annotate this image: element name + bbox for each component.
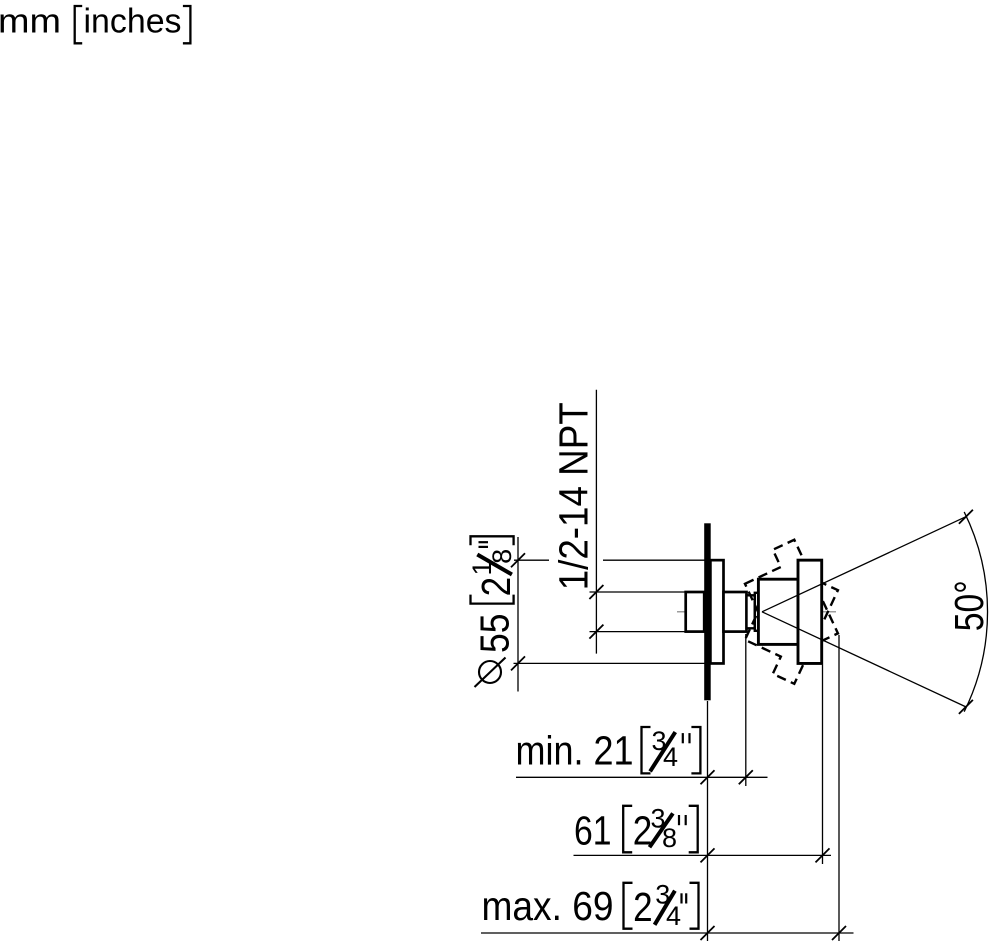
dimension max.69: fraction slash bbox=[655, 891, 675, 925]
svg-text:4: 4 bbox=[663, 742, 678, 772]
svg-text:50°: 50° bbox=[946, 580, 992, 631]
dimension 61: dimension line bbox=[574, 854, 832, 856]
dimension 50 degrees: tick upper bbox=[959, 510, 973, 524]
svg-text:8: 8 bbox=[662, 823, 677, 853]
dimension 61: tick right bbox=[816, 848, 830, 862]
dimension Ø55: fraction slash bbox=[477, 555, 512, 575]
svg-text:min. 21: min. 21 bbox=[516, 728, 634, 774]
svg-text:2: 2 bbox=[633, 884, 653, 930]
dimension 50 degrees: tick lower bbox=[959, 700, 973, 714]
dimension 50 degrees: lower ray bbox=[762, 612, 966, 707]
svg-text:max. 69: max. 69 bbox=[482, 883, 614, 929]
dimension 61: bracket close bbox=[689, 806, 698, 853]
dimension max.69: tick right bbox=[832, 926, 846, 940]
dimension Ø55: bracket close bbox=[471, 536, 514, 545]
dimension 61: inch marks bbox=[678, 815, 680, 825]
dimension Ø55: inch marks bbox=[479, 541, 489, 543]
centerline (valve axis) bbox=[677, 611, 836, 613]
dimension max.69: dimension line bbox=[481, 932, 854, 934]
dimension 1/2-14 NPT: tick bottom bbox=[589, 625, 603, 639]
dimension Ø55: tick bottom bbox=[511, 656, 525, 670]
wall (finished surface, thick bar) bbox=[704, 523, 711, 700]
dimension Ø55: extension line top bbox=[514, 559, 549, 561]
dimension min.21: tick right bbox=[739, 770, 753, 784]
dimension max.69: inch marks bbox=[680, 893, 682, 903]
dimension min.21: bracket close bbox=[691, 727, 700, 773]
dimension 61: bracket open bbox=[623, 806, 632, 853]
dimension min.21: bracket open bbox=[642, 727, 651, 773]
svg-text:mm: mm bbox=[0, 3, 61, 41]
dimension 61: fraction slash bbox=[650, 813, 673, 847]
svg-text:55: 55 bbox=[472, 614, 518, 654]
dimension 61: tick left bbox=[701, 848, 715, 862]
svg-text:8: 8 bbox=[487, 549, 517, 564]
svg-text:2: 2 bbox=[473, 577, 519, 597]
dimension min.21: dimension line bbox=[516, 776, 768, 778]
svg-text:inches: inches bbox=[84, 3, 182, 41]
dimension 1/2-14 NPT: extension line top bbox=[590, 591, 686, 593]
handle cap disc bbox=[798, 560, 822, 663]
units label "mm [inches]" bbox=[0, 3, 190, 44]
handle position rotated up (dashed) bbox=[737, 540, 838, 660]
dimension 1/2-14 NPT: extension line bottom bbox=[590, 631, 686, 633]
dimension 1/2-14 NPT: dimension line bbox=[595, 390, 597, 654]
sleeve bbox=[724, 592, 747, 632]
dimension min.21: fraction slash bbox=[650, 732, 675, 771]
extension line cap front bbox=[822, 665, 824, 864]
threaded nipple behind wall bbox=[686, 592, 705, 632]
dimension max.69: bracket open bbox=[624, 883, 633, 929]
dimension Ø55: extension line bottom bbox=[514, 662, 711, 664]
dimension 50 degrees: arc bbox=[964, 512, 987, 712]
dimension max.69: bracket close bbox=[690, 883, 699, 929]
dimension min.21: tick left bbox=[701, 770, 715, 784]
extension line handle max reach bbox=[838, 635, 840, 941]
stem neck bbox=[747, 595, 755, 628]
dimension min.21: inch marks bbox=[682, 733, 684, 743]
dimension Ø55: dimension line bbox=[517, 537, 519, 692]
escutcheon flange on wall bbox=[710, 560, 723, 663]
svg-text:1/2-14 NPT: 1/2-14 NPT bbox=[550, 402, 596, 590]
handle position rotated down (dashed) bbox=[737, 563, 838, 683]
dimension 50 degrees: upper ray bbox=[762, 517, 966, 612]
extension line wall face (vertical) bbox=[707, 701, 709, 941]
svg-text:61: 61 bbox=[574, 807, 612, 853]
dimension Ø55: tick top bbox=[511, 553, 525, 567]
stem flange bbox=[755, 593, 759, 631]
dimension 1/2-14 NPT: tick top bbox=[589, 585, 603, 599]
svg-text:4: 4 bbox=[666, 901, 681, 931]
handle body bbox=[758, 579, 798, 644]
dimension Ø55: bracket open bbox=[471, 595, 514, 604]
dimension Ø55: diameter symbol bbox=[475, 658, 506, 688]
dimension max.69: tick left bbox=[701, 926, 715, 940]
extension line sleeve front bbox=[745, 634, 747, 786]
